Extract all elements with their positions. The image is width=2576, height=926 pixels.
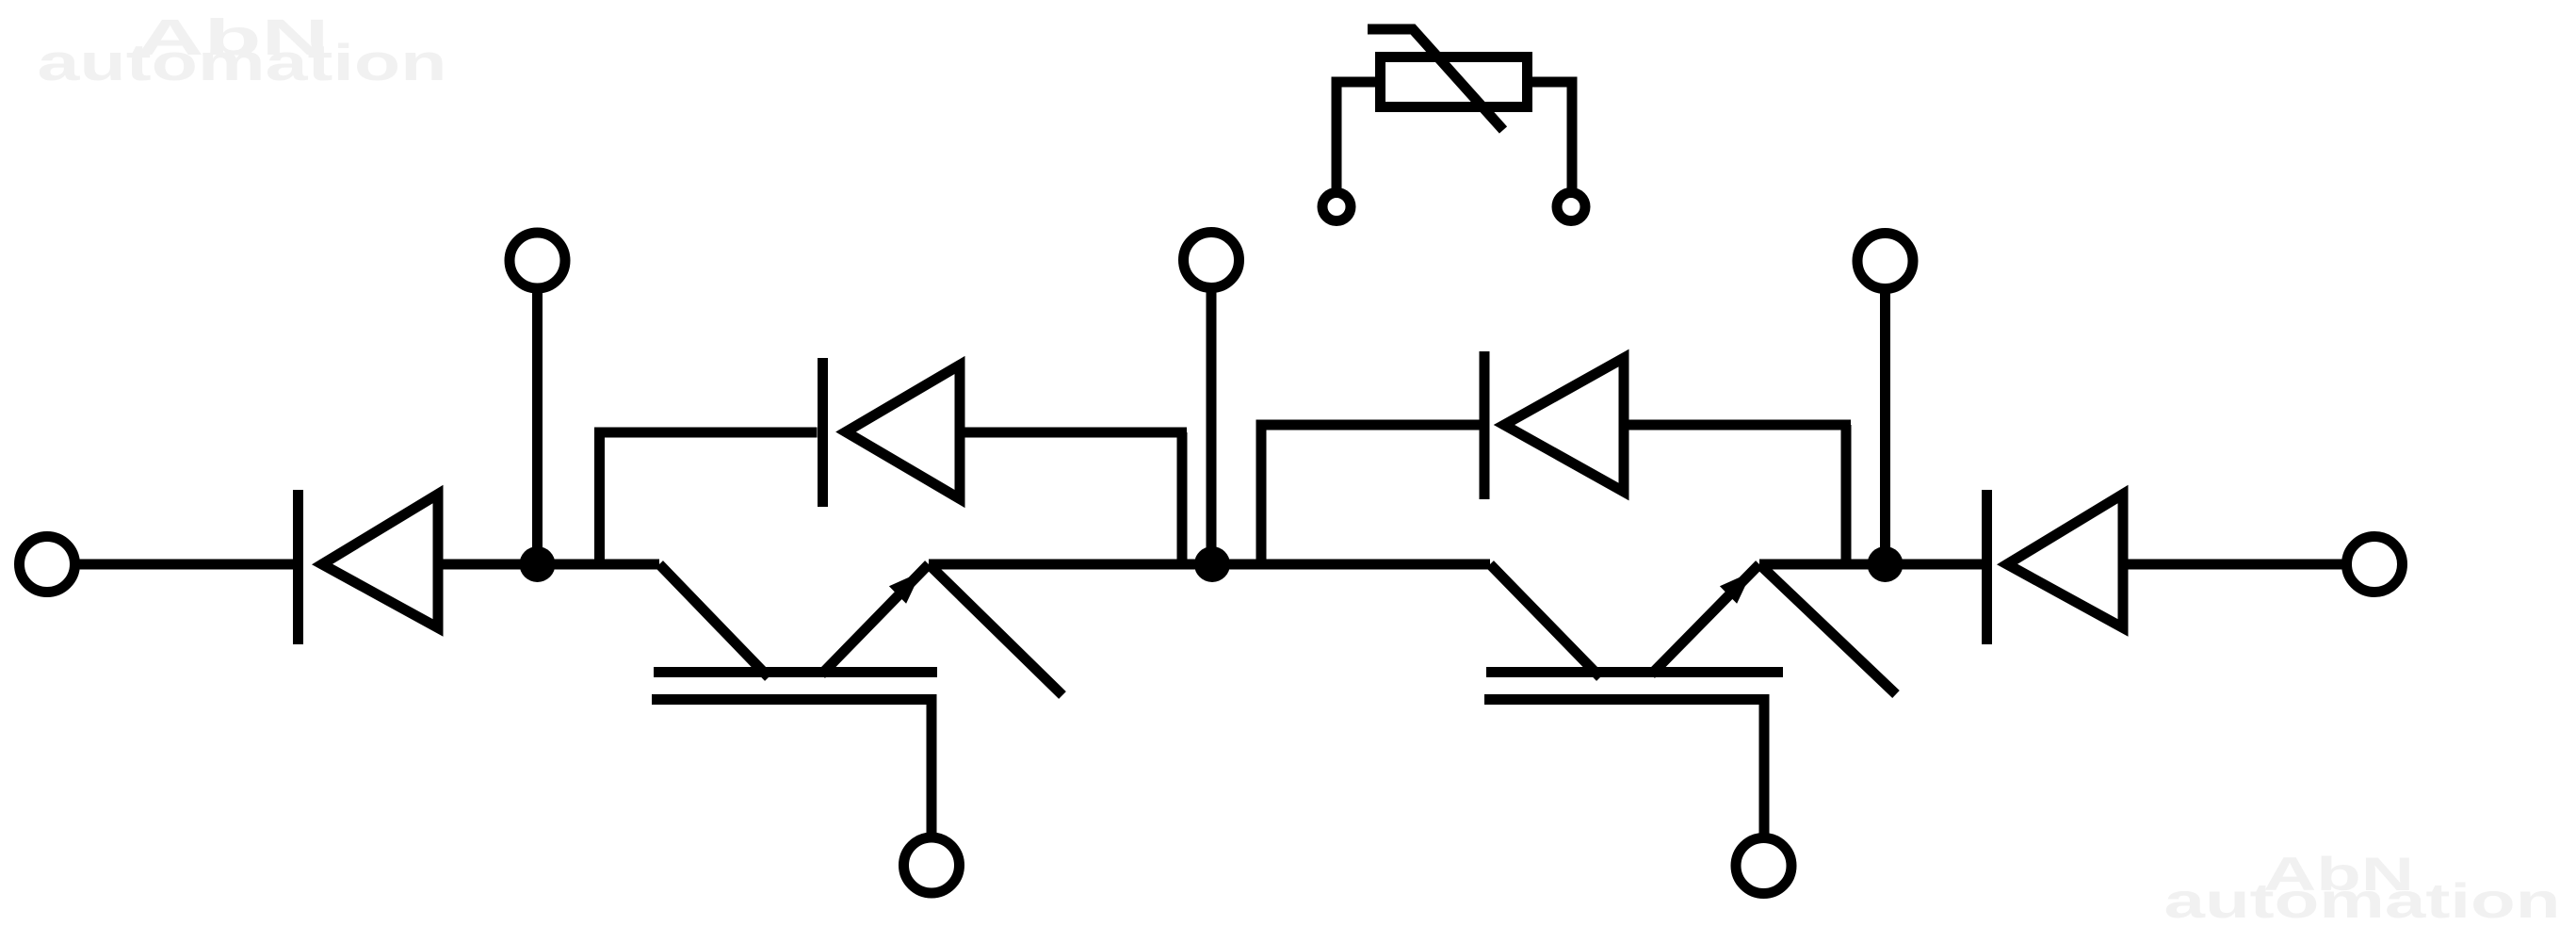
svg-text:automation: automation: [38, 33, 447, 91]
wire: riser J1 to terminal 2: [532, 288, 543, 564]
transistor Q1 emitter tail: [929, 564, 1062, 695]
transistor Q2 collector slant: [1490, 564, 1600, 677]
transistor Q2 gate bar top: [1486, 667, 1783, 677]
diode D1 triangle: [322, 495, 438, 628]
wire: loop 1 top left segment: [594, 428, 818, 438]
node J1 junction dot: [520, 546, 556, 582]
diode D4 cathode bar: [1480, 351, 1490, 499]
wire: loop 1 right vertical: [1177, 432, 1188, 563]
wire: riser J2 to terminal 3: [1207, 288, 1217, 564]
transistor Q1 collector slant: [659, 564, 769, 677]
terminal G2 (gate 2): [1736, 838, 1791, 894]
watermark bottom-right "AbN automation": [2164, 848, 2561, 926]
thermistor strike mark: [1368, 29, 1503, 130]
wire: riser J3 to terminal 4: [1880, 289, 1890, 565]
node J3 junction dot: [1868, 546, 1904, 582]
wire: D3 to right terminal: [2118, 560, 2347, 570]
transistor Q1 emitter arrow: [889, 572, 921, 604]
thermistor RT body: [1381, 57, 1528, 107]
transistor Q1 emitter slant: [821, 564, 929, 674]
diode D1 cathode bar: [293, 490, 303, 644]
wire: anti-parallel loop 1 left vertical: [594, 432, 605, 563]
terminal 2 (top left): [510, 233, 565, 288]
transistor Q1 gate bar top: [654, 667, 937, 677]
wire: loop 2 top right segment: [1619, 420, 1851, 431]
terminal 3 (top middle): [1184, 233, 1239, 288]
terminal t1 (thermistor left): [1322, 193, 1351, 221]
transistor Q2 emitter tail: [1759, 564, 1896, 694]
node J2 junction dot: [1194, 546, 1230, 582]
transistor Q1 gate bar bottom: [652, 700, 932, 839]
wire: D1 to node J1: [433, 560, 659, 570]
wire: bus apex Q2 to diode D3: [1759, 560, 1982, 570]
wire: thermistor left lead: [1337, 82, 1377, 188]
wire: loop 1 top right segment: [955, 428, 1187, 438]
wire: loop 2 right vertical: [1841, 425, 1852, 563]
terminal 4 (top right): [1857, 234, 1913, 289]
transistor Q2 emitter slant: [1651, 564, 1759, 674]
wire: bus apex Q1 to node J2: [929, 560, 1490, 570]
terminal t2 (thermistor right): [1557, 193, 1585, 221]
terminal 5 (right main terminal): [2347, 537, 2403, 593]
terminal 1 (left main terminal): [20, 537, 75, 593]
wire: thermistor right lead: [1531, 82, 1572, 188]
wire: anti-parallel loop 2 left vertical: [1256, 425, 1267, 563]
watermark top-left "AbN automation": [38, 9, 447, 91]
diode D3 triangle: [2007, 495, 2123, 628]
svg-text:automation: automation: [2164, 874, 2561, 926]
diode D4 triangle: [1504, 358, 1624, 492]
wire: loop 2 top left segment: [1256, 420, 1480, 431]
diode D3 cathode bar: [1982, 490, 1992, 644]
transistor Q2 emitter arrow: [1720, 572, 1752, 604]
terminal G1 (gate 1): [904, 837, 960, 893]
diode D2 cathode bar: [818, 358, 828, 507]
wire: left terminal to diode D1: [75, 560, 293, 570]
diode D2 triangle: [846, 366, 960, 499]
transistor Q2 gate bar bottom: [1484, 700, 1764, 839]
